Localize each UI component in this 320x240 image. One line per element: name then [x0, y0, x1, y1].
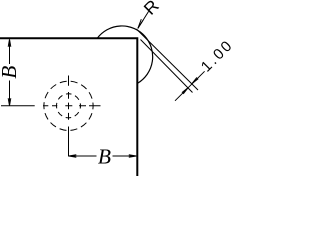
arrow left at bottom B dim	[69, 155, 77, 158]
extension line D1 (tangent to ball)	[136, 29, 198, 90]
arrow pointing up-right at D2	[182, 88, 188, 94]
svg-text:B: B	[98, 144, 111, 168]
arrowhead of R leader	[138, 19, 143, 28]
dimension line 1.00 (perpendicular)	[175, 71, 205, 101]
part outline: top edge and right edge	[0, 38, 137, 176]
svg-text:B: B	[0, 66, 21, 79]
extension line D2 (from corner)	[141, 40, 193, 93]
vertical dimension line B (left)	[9, 40, 11, 106]
arrow right at bottom B dim	[129, 155, 137, 158]
vertical centerline of hole	[68, 76, 70, 157]
arrow up at top of left B dim	[8, 39, 11, 47]
bottom dimension line B	[69, 155, 137, 157]
horizontal centerline of hole	[1, 105, 101, 107]
inner hidden circle	[57, 94, 81, 118]
leader line for R	[138, 11, 149, 28]
outer hidden circle	[44, 81, 93, 130]
arc: ball radius at corner	[97, 26, 152, 83]
arrow pointing down-left at D1	[192, 77, 198, 83]
arrow down at bottom of left B dim	[8, 98, 11, 106]
